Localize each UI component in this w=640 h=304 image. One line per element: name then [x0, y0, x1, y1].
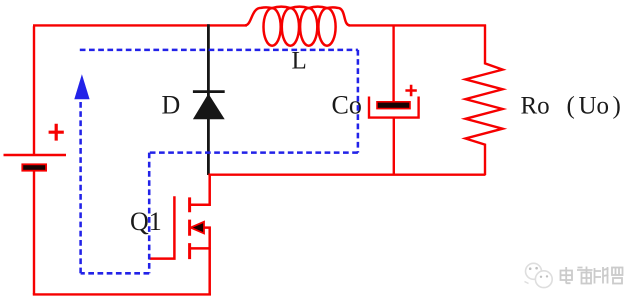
wire: left rail below battery down to bottom rail	[33, 171, 35, 295]
inductor L entry curve	[245, 7, 272, 25]
MOSFET Q1 gate	[150, 196, 175, 258]
resistor Ro zigzag with leads	[466, 25, 503, 176]
capacitor Co polarity +	[405, 85, 416, 96]
MOSFET Q1 drain lead	[190, 174, 210, 205]
current loop dashed inner vertical segment	[148, 153, 151, 274]
wire: bottom return rail	[33, 293, 211, 295]
svg-text:D: D	[162, 90, 181, 119]
svg-text:(: (	[567, 93, 575, 120]
current loop dashed middle segment	[149, 151, 358, 154]
capacitor Co bottom lead	[393, 118, 395, 175]
wire: top rail from inductor to output node	[349, 24, 487, 26]
wire: input left rail (battery+ up to top rail, across to diode/inductor)	[33, 25, 247, 155]
svg-text:L: L	[292, 47, 307, 74]
capacitor Co bottom plate (red cup)	[369, 97, 419, 118]
battery Vin polarity +	[49, 124, 64, 141]
current loop dashed bottom segment	[81, 272, 150, 275]
MOSFET Q1 body lead	[204, 228, 210, 249]
wire: switch-node rail (diode anode to Co/Ro bottoms)	[208, 173, 485, 175]
current loop arrow (up)	[74, 74, 89, 99]
capacitor Co top plate (black bar)	[377, 102, 410, 109]
battery Vin top plate (long, +)	[4, 154, 67, 157]
capacitor Co top lead	[392, 25, 394, 102]
inductor L top humps	[272, 7, 327, 8]
diode D triangle	[193, 94, 225, 120]
watermark logo eyes	[529, 267, 548, 278]
svg-text:Q1: Q1	[130, 207, 162, 236]
inductor L coil loops	[245, 7, 350, 46]
svg-text:Uo: Uo	[579, 93, 610, 120]
current loop dashed right segment	[357, 50, 360, 153]
wire: vertical black branch through diode D	[207, 24, 210, 175]
battery Vin bottom plate (short thick, -)	[22, 164, 46, 170]
MOSFET Q1 source lead	[190, 248, 210, 295]
svg-text:): )	[613, 93, 621, 120]
inductor L exit curve	[327, 7, 350, 25]
watermark logo (two chat circles)	[525, 263, 553, 287]
watermark text 电源联盟 (stylized)	[561, 267, 623, 284]
diode D cathode bar	[193, 90, 225, 93]
MOSFET Q1 channel bars	[188, 197, 191, 259]
MOSFET Q1 body arrow	[191, 222, 204, 234]
svg-text:Ro: Ro	[521, 93, 550, 120]
current loop dashed left segment	[79, 100, 82, 274]
current loop dashed top segment	[80, 49, 358, 52]
